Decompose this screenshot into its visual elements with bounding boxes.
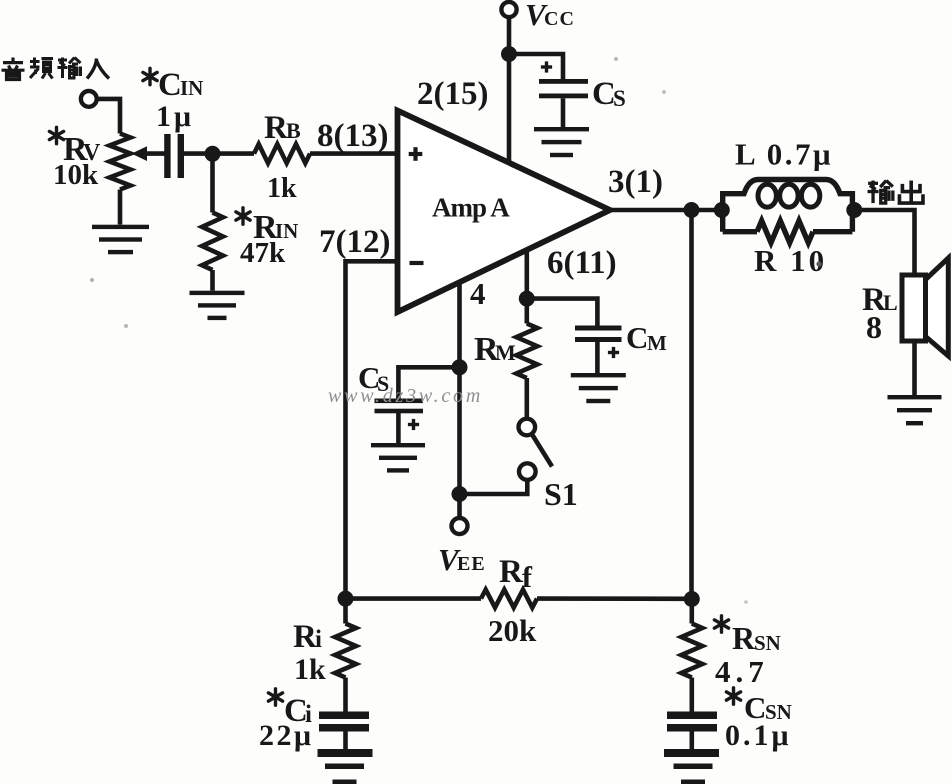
svg-text:1k: 1k xyxy=(267,173,297,204)
svg-text:SN: SN xyxy=(754,631,781,655)
svg-text:R: R xyxy=(732,620,756,656)
svg-text:f: f xyxy=(522,561,533,594)
svg-text:0.1μ: 0.1μ xyxy=(725,719,792,752)
svg-text:7(12): 7(12) xyxy=(319,224,390,260)
svg-text:i: i xyxy=(315,626,322,653)
svg-text:M: M xyxy=(647,331,667,355)
svg-text:S1: S1 xyxy=(544,476,578,512)
svg-text:2(15): 2(15) xyxy=(417,76,488,112)
svg-text:1μ: 1μ xyxy=(156,100,194,133)
svg-text:L 0.7μ: L 0.7μ xyxy=(735,137,833,172)
svg-text:www.dz3w.com: www.dz3w.com xyxy=(328,385,483,407)
svg-text:1k: 1k xyxy=(294,653,326,686)
svg-text:R 10: R 10 xyxy=(754,243,827,278)
svg-text:8: 8 xyxy=(866,309,882,345)
svg-text:20k: 20k xyxy=(488,613,537,648)
svg-text:C: C xyxy=(626,320,648,355)
svg-text:8(13): 8(13) xyxy=(317,118,388,154)
svg-text:B: B xyxy=(286,118,301,143)
svg-text:3(1): 3(1) xyxy=(608,164,663,200)
svg-text:CC: CC xyxy=(544,8,575,30)
svg-text:S: S xyxy=(613,86,626,111)
svg-text:R: R xyxy=(499,554,524,590)
svg-text:Amp A: Amp A xyxy=(432,193,510,223)
svg-text:C: C xyxy=(158,67,182,103)
svg-text:L: L xyxy=(883,290,898,315)
svg-text:10k: 10k xyxy=(53,159,99,191)
svg-text:4.7: 4.7 xyxy=(715,654,769,689)
svg-text:IN: IN xyxy=(180,76,203,100)
svg-text:22μ: 22μ xyxy=(259,719,314,752)
svg-text:6(11): 6(11) xyxy=(547,245,617,281)
svg-text:4: 4 xyxy=(470,276,486,311)
svg-text:EE: EE xyxy=(457,553,486,575)
svg-text:47k: 47k xyxy=(240,237,286,269)
svg-text:M: M xyxy=(495,340,516,365)
